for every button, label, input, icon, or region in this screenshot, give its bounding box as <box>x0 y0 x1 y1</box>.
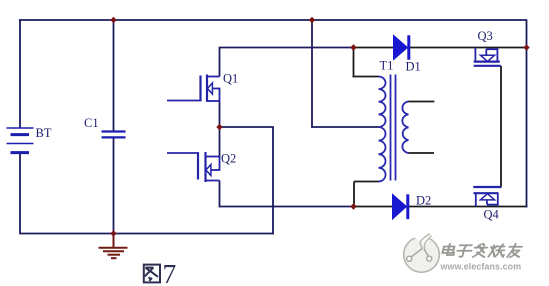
svg-text:Q4: Q4 <box>484 208 500 222</box>
svg-text:T1: T1 <box>380 59 394 73</box>
wire T1 secondary top lead <box>409 101 435 103</box>
transformer T1 core <box>390 75 392 181</box>
transistor Q1 <box>167 75 220 102</box>
wire C1 bottom branch <box>113 137 115 233</box>
transformer T1 primary winding <box>379 77 386 182</box>
svg-text:www.elecfans.com: www.elecfans.com <box>440 262 522 272</box>
junction dot at bottom rail / ground <box>110 230 116 236</box>
wire top rail <box>19 19 527 21</box>
transistor Q2 <box>167 152 220 182</box>
junction dot at upper rail / T1 primary top <box>350 44 356 50</box>
wire right vertical <box>526 19 528 207</box>
diode D1 <box>394 35 411 59</box>
transformer T1 secondary winding <box>402 102 408 154</box>
svg-text:BT: BT <box>36 126 52 140</box>
wire T1 primary bottom lead vertical <box>353 182 355 207</box>
svg-text:D1: D1 <box>406 60 421 74</box>
junction dot at lower rail / T1 primary bottom <box>350 203 356 209</box>
wire left vertical from top rail to battery <box>19 19 21 128</box>
wire upper rail right segment (dot through D1 and Q3) <box>354 47 527 49</box>
wire T1 primary top lead vertical <box>353 48 355 78</box>
wire T1 secondary bottom lead <box>409 152 435 154</box>
友 <box>507 244 523 257</box>
wire Q3/Q4 gate vertical <box>500 66 502 187</box>
wire T1 primary top lead horizontal <box>353 76 379 78</box>
烧 <box>488 244 506 256</box>
svg-text:C1: C1 <box>84 116 99 130</box>
wire bottom rail <box>20 233 274 235</box>
wire C1 top branch <box>113 20 115 132</box>
caption 图7 <box>144 265 160 283</box>
wire Q2 drain vertical <box>219 127 221 157</box>
电 <box>442 244 456 255</box>
junction dot at upper rail / right vertical <box>523 44 529 50</box>
svg-text:Q1: Q1 <box>223 72 238 86</box>
wire upper rail left segment (Q1 drain to T1 tap dot) <box>219 47 354 49</box>
svg-text:D2: D2 <box>416 194 431 208</box>
capacitor C1 <box>102 132 126 138</box>
transistor Q4 <box>473 187 501 207</box>
wire Q2 source vertical <box>219 181 221 208</box>
diode D2 <box>393 194 410 219</box>
watermark logo <box>404 234 440 273</box>
子 <box>456 245 473 257</box>
wire Q1 source vertical <box>219 101 221 127</box>
wire lower rail right segment (dot through D2 and Q4) <box>354 206 528 208</box>
wire lower rail left segment (Q2 source to T1 tap dot) <box>220 206 354 208</box>
battery BT <box>7 128 34 153</box>
watermark text 电子发烧友 <box>441 244 522 258</box>
svg-text:Q2: Q2 <box>221 151 236 165</box>
ground <box>99 234 128 259</box>
wire T1 primary bottom lead horizontal <box>354 181 379 183</box>
junction dot at top rail / mid vertical <box>309 17 315 23</box>
wire Q1 drain vertical <box>219 48 221 77</box>
transistor Q3 <box>474 48 501 66</box>
junction dot at node A (Q1 source / Q2 drain) <box>216 124 222 130</box>
wire mid vertical from top rail to transformer center tap <box>311 20 313 128</box>
发 <box>472 244 488 257</box>
wire node A horizontal (Q1/Q2 midpoint to right) <box>220 126 274 128</box>
svg-text:Q3: Q3 <box>478 29 493 43</box>
junction dot at top rail / C1 <box>110 17 116 23</box>
wire battery negative to bottom rail <box>19 153 21 235</box>
wire center tap horizontal <box>311 126 378 128</box>
svg-text:7: 7 <box>163 258 177 286</box>
wire node A vertical down to bottom rail <box>272 127 274 234</box>
